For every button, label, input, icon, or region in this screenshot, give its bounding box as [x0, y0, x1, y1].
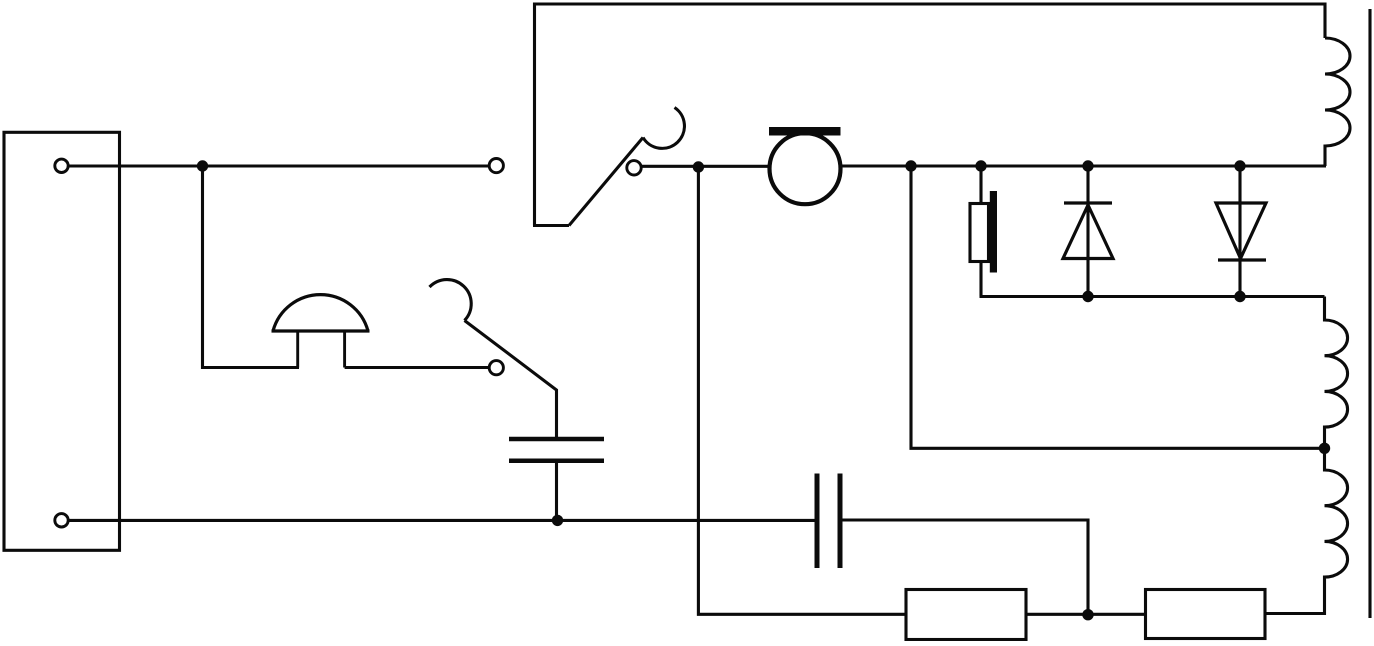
inductor W1 (top winding)	[1325, 38, 1350, 166]
node D junction	[975, 160, 986, 171]
diode D2 lead	[1238, 166, 1241, 297]
receiver B1 base	[272, 329, 370, 332]
diode D1 cathode bar	[1064, 201, 1112, 204]
receiver B1 dome	[273, 295, 368, 331]
contact T4 open circle (switch S2 fixed contact)	[489, 361, 503, 375]
receiver B1 legs	[296, 330, 299, 368]
node E junction	[1082, 160, 1093, 171]
wire node B down to resistor R1	[698, 166, 906, 614]
varistor RV1 lead	[979, 166, 982, 203]
contact T5 open circle (switch S1 fixed contact)	[627, 161, 641, 175]
terminal T2	[55, 514, 68, 527]
resistor R2	[1146, 590, 1266, 639]
varistor RV1 body	[970, 204, 989, 262]
wire	[642, 165, 770, 168]
resistor R1	[906, 590, 1026, 640]
terminal T3 open circle	[489, 159, 503, 173]
inductor W3 (bottom winding)	[1265, 448, 1348, 613]
node H junction	[552, 515, 563, 526]
wire	[1026, 613, 1088, 616]
switch S1 foot	[533, 224, 569, 227]
capacitor C1 bottom plate	[509, 459, 604, 464]
switch S1 blade	[569, 138, 643, 226]
transformer core line	[1368, 9, 1371, 618]
wire	[203, 166, 300, 368]
microphone M1 bar	[769, 127, 841, 136]
node A junction	[197, 160, 208, 171]
node E1 junction	[1082, 291, 1093, 302]
capacitor C2 right plate	[838, 474, 843, 569]
diode D2 triangle	[1216, 203, 1266, 259]
wire top frame	[535, 4, 1326, 226]
switch S1 hook arc	[643, 108, 684, 149]
inductor W2 (middle winding)	[1325, 297, 1348, 449]
connector J1	[4, 132, 120, 550]
node E2 junction	[1234, 291, 1245, 302]
diode D1 triangle	[1063, 205, 1113, 259]
capacitor C2 left plate	[815, 474, 820, 569]
varistor RV1 lead	[979, 262, 982, 297]
node G junction	[1319, 443, 1330, 454]
wire	[841, 164, 1326, 167]
wire node F up to capacitor C2	[841, 520, 1088, 615]
wire bottom from T2 to capacitor C2	[69, 519, 815, 522]
wire	[345, 366, 489, 369]
wire	[69, 164, 490, 167]
node K junction	[1234, 160, 1245, 171]
wire node C to winding tap	[911, 166, 1325, 448]
node F junction	[1082, 609, 1093, 620]
varistor RV1 bar	[990, 191, 997, 273]
switch S2 hook arc	[430, 280, 472, 321]
node B junction	[693, 161, 704, 172]
diode D1 lead	[1086, 166, 1089, 297]
node C junction	[905, 160, 916, 171]
capacitor C1 top plate	[509, 437, 604, 442]
diode D2 cathode bar	[1218, 258, 1266, 261]
wire	[1088, 613, 1146, 616]
wire diode bus bottom	[980, 295, 1325, 298]
terminal T1	[55, 159, 68, 172]
microphone M1 circle	[770, 133, 841, 204]
switch S2 blade	[465, 321, 557, 438]
capacitor C1 bottom lead	[555, 463, 558, 520]
